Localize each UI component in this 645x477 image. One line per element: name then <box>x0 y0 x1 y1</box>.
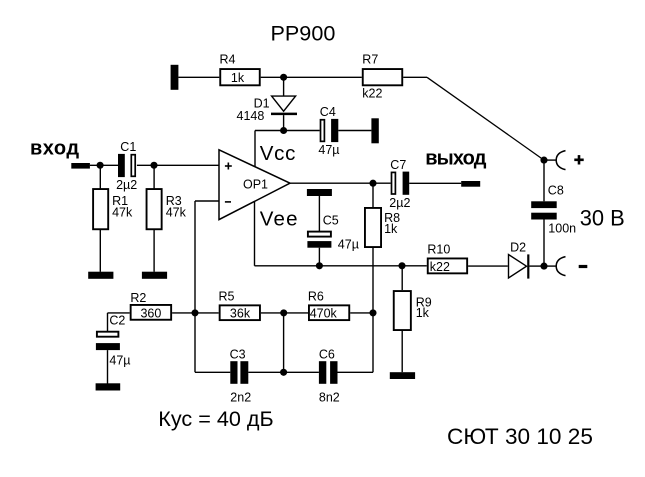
svg-text:8n2: 8n2 <box>319 391 340 405</box>
resistor R9 <box>394 266 432 372</box>
ground bar under C2 <box>96 383 121 390</box>
op-amp OP1 <box>219 150 290 220</box>
label minus sign <box>579 265 588 268</box>
svg-text:30 В: 30 В <box>580 205 625 230</box>
wire R7 to diagonal <box>403 76 427 78</box>
svg-text:k22: k22 <box>430 260 450 274</box>
node R5/R6/C3/C6 junction <box>280 309 287 316</box>
svg-text:47k: 47k <box>166 206 187 220</box>
resistor R3 <box>147 165 187 271</box>
wire R4 to R7 <box>261 76 362 78</box>
svg-text:36k: 36k <box>230 307 251 321</box>
svg-text:4148: 4148 <box>237 109 265 123</box>
wire R2 to R5 <box>172 312 219 314</box>
wire R10 to D2 <box>468 265 508 267</box>
terminal X3 (вход) <box>71 163 90 169</box>
wire R2 row left <box>108 313 130 332</box>
wire Vcc node to C4 <box>284 130 320 132</box>
resistor R5 <box>219 290 260 321</box>
node minus terminal junction <box>540 263 547 270</box>
wire C8 to minus node <box>543 220 545 267</box>
title PP900 <box>271 21 336 46</box>
label Vee <box>260 207 299 230</box>
wire diagonal to plus terminal node <box>427 77 544 160</box>
wire node to minus socket <box>544 265 556 267</box>
svg-text:47k: 47k <box>112 206 133 220</box>
wire node to plus socket <box>544 159 556 161</box>
svg-text:R7: R7 <box>362 53 378 67</box>
svg-text:выход: выход <box>425 147 487 169</box>
svg-text:C3: C3 <box>230 347 246 361</box>
terminal socket plus <box>556 151 565 170</box>
svg-text:C4: C4 <box>320 105 336 119</box>
svg-text:2n2: 2n2 <box>230 391 251 405</box>
svg-text:PP900: PP900 <box>271 21 336 46</box>
resistor R7 <box>362 53 402 101</box>
svg-text:C7: C7 <box>390 158 406 172</box>
capacitor C2 <box>96 314 131 384</box>
diode D2 <box>509 240 529 278</box>
svg-text:R2: R2 <box>130 291 146 305</box>
wire X3 to C1 <box>90 164 118 166</box>
svg-text:C8: C8 <box>548 184 564 198</box>
label plus sign <box>574 155 583 164</box>
node Vcc junction <box>280 127 287 134</box>
label Кус = 40 дБ <box>158 406 273 431</box>
node junction R4/R7/D1 <box>280 74 287 81</box>
svg-text:Vee: Vee <box>260 207 299 230</box>
svg-text:D2: D2 <box>510 240 526 254</box>
wire plus node to C8 <box>543 160 545 201</box>
wire Vee rail <box>255 265 427 267</box>
svg-text:1k: 1k <box>416 306 430 320</box>
node noninverting junction (R3) <box>150 162 157 169</box>
wire C1 to op-amp plus input <box>137 164 219 166</box>
terminal socket minus <box>556 257 565 276</box>
capacitor C5 <box>307 189 359 266</box>
node input junction (R1) <box>97 162 104 169</box>
node R6/R8/C6 junction <box>369 309 376 316</box>
svg-text:100n: 100n <box>548 222 576 236</box>
svg-text:СЮТ 30 10 25: СЮТ 30 10 25 <box>447 424 593 449</box>
wire C3/C6 node up to R5/R6 node <box>283 313 285 372</box>
resistor R8 <box>365 183 400 313</box>
ground bar under R9 <box>390 372 415 379</box>
svg-text:47µ: 47µ <box>109 354 130 368</box>
svg-text:2µ2: 2µ2 <box>116 178 137 192</box>
svg-text:C2: C2 <box>109 314 125 328</box>
wire Vcc node to op-amp Vcc pin <box>255 131 284 167</box>
wire op-amp output <box>290 182 391 184</box>
resistor R4 <box>220 53 260 86</box>
ground bar under R3 <box>142 272 167 279</box>
wire R6 to R8 column <box>350 312 373 314</box>
svg-text:вход: вход <box>30 138 80 160</box>
svg-text:C1: C1 <box>120 140 136 154</box>
resistor R6 <box>308 290 349 321</box>
svg-text:47µ: 47µ <box>338 238 359 252</box>
svg-text:R5: R5 <box>219 290 235 304</box>
resistor R10 <box>427 242 467 273</box>
capacitor C8 <box>531 184 576 236</box>
capacitor C3 <box>230 347 252 404</box>
svg-text:2µ2: 2µ2 <box>389 196 410 210</box>
svg-text:Кус = 40 дБ: Кус = 40 дБ <box>158 406 273 431</box>
svg-text:R6: R6 <box>308 290 324 304</box>
wire inverting input feedback <box>195 201 230 372</box>
node R9/rail junction <box>398 262 405 269</box>
wire D2 to minus terminal node <box>529 265 544 267</box>
svg-text:Vcc: Vcc <box>260 142 296 165</box>
svg-text:R4: R4 <box>220 53 236 67</box>
wire op-amp Vee pin <box>254 202 256 266</box>
wire C7 to terminal X4 <box>409 182 461 184</box>
wire C3 to C6 <box>248 371 319 373</box>
svg-text:C6: C6 <box>319 347 335 361</box>
label выход <box>425 147 487 169</box>
terminal X4 (выход) <box>461 181 480 187</box>
svg-text:R10: R10 <box>427 242 450 256</box>
ground bar under R1 <box>88 272 113 279</box>
diode D1 <box>237 77 298 130</box>
svg-text:OP1: OP1 <box>243 178 268 192</box>
svg-text:470k: 470k <box>310 307 338 321</box>
label 30 В <box>580 205 625 230</box>
svg-text:C5: C5 <box>323 214 339 228</box>
label Vcc <box>260 142 296 165</box>
capacitor C4 <box>318 105 339 157</box>
wire R5 to R6 <box>261 312 308 314</box>
wire C6 to R8 column <box>338 313 374 372</box>
node C3/C6 junction <box>280 369 287 376</box>
capacitor C7 <box>389 158 410 210</box>
svg-text:360: 360 <box>140 307 161 321</box>
label СЮТ 30 10 25 <box>447 424 593 449</box>
svg-text:47µ: 47µ <box>318 143 339 157</box>
capacitor C6 <box>319 347 340 404</box>
svg-text:1k: 1k <box>231 71 245 85</box>
node feedback/R2/R5 junction <box>191 309 198 316</box>
capacitor C1 <box>116 140 137 192</box>
wire C4 to terminal X2 <box>338 130 371 132</box>
resistor R1 <box>93 165 133 271</box>
node output junction <box>369 180 376 187</box>
node plus terminal junction <box>540 157 547 164</box>
node C5/rail junction <box>316 262 323 269</box>
resistor R2 <box>130 291 171 321</box>
label вход <box>30 138 80 160</box>
terminal X2 (right of C4) <box>371 118 378 143</box>
wire X1 to R4 <box>178 76 219 78</box>
svg-text:1k: 1k <box>384 222 398 236</box>
svg-text:k22: k22 <box>362 87 382 101</box>
terminal X1 (top left) <box>171 65 179 90</box>
